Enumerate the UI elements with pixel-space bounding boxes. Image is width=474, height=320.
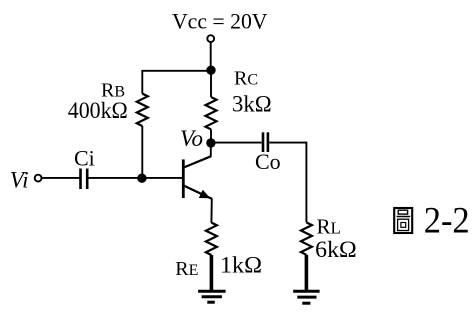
- svg-text:Co: Co: [255, 149, 281, 174]
- wire emitter vertical to RE: [210, 199, 212, 223]
- wire RC zigzag to Vo node: [210, 129, 212, 143]
- terminal Vcc: [207, 35, 214, 42]
- svg-text:Ci: Ci: [74, 146, 95, 171]
- wire RL ground lead: [305, 255, 309, 291]
- resistor RE zigzag: [206, 223, 217, 255]
- node Vo: [206, 138, 215, 147]
- wire RE ground lead: [210, 255, 214, 291]
- terminal Vi: [35, 175, 42, 182]
- wire Co to RL corner: [269, 143, 306, 223]
- resistor RC zigzag: [206, 97, 217, 129]
- wire RB branch upper vertical: [141, 70, 143, 94]
- transistor Q1 collector diagonal: [184, 156, 211, 167]
- wire Vi terminal to Ci: [42, 177, 80, 179]
- wire RC branch upper vertical: [210, 70, 212, 97]
- wire Vcc terminal to top node: [210, 42, 212, 70]
- svg-text:3kΩ: 3kΩ: [232, 91, 272, 116]
- svg-text:Vi: Vi: [10, 168, 29, 193]
- wire Ci to transistor base: [89, 177, 184, 179]
- capacitor Ci plate right: [86, 169, 89, 190]
- resistor RB zigzag: [137, 94, 148, 126]
- wire top horizontal to RB branch: [142, 70, 211, 72]
- node top junction: [206, 66, 215, 75]
- transistor Q1 emitter diagonal: [184, 186, 212, 199]
- capacitor Ci plate left: [79, 169, 82, 190]
- svg-text:6kΩ: 6kΩ: [315, 237, 357, 262]
- resistor RL zigzag: [301, 222, 312, 254]
- svg-text:400kΩ: 400kΩ: [68, 98, 128, 123]
- wire Vo to Co: [211, 142, 262, 144]
- label 圖 (hand-drawn CJK glyph): [394, 208, 412, 233]
- transistor Q1 base bar: [182, 159, 185, 198]
- svg-text:Vo: Vo: [180, 126, 203, 151]
- svg-text:RC: RC: [234, 68, 258, 90]
- node base junction: [137, 174, 146, 183]
- svg-text:RE: RE: [175, 258, 198, 280]
- svg-text:Vcc = 20V: Vcc = 20V: [172, 9, 268, 34]
- svg-text:1kΩ: 1kΩ: [220, 253, 262, 278]
- wire RB branch lower vertical: [141, 126, 143, 178]
- wire collector vertical to Vo node: [210, 143, 212, 157]
- capacitor Co plate left: [262, 132, 265, 152]
- transistor Q1 emitter arrowhead: [199, 190, 211, 199]
- ground RL: [293, 291, 319, 303]
- ground RE: [198, 291, 226, 302]
- svg-text:RL: RL: [317, 215, 341, 239]
- capacitor Co plate right: [267, 132, 270, 152]
- svg-text:2-2: 2-2: [424, 201, 470, 242]
